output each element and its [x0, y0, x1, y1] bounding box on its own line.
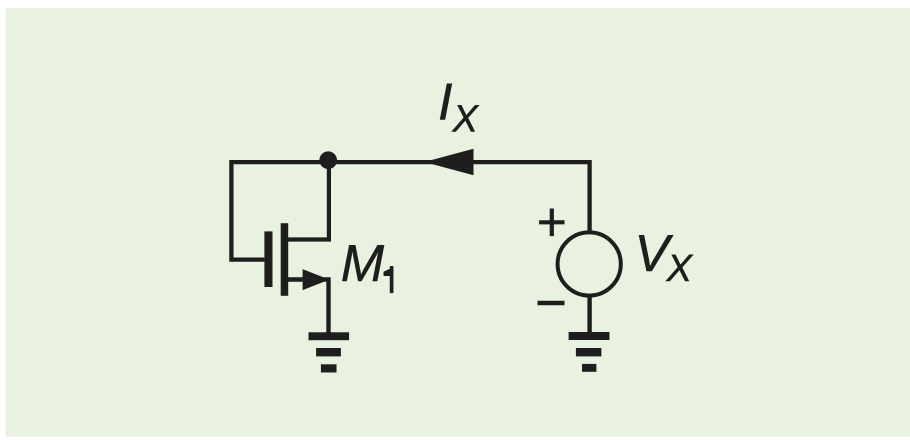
wire source lead: [285, 280, 329, 334]
ground under M1: [309, 332, 350, 372]
svg-text:X: X: [666, 248, 694, 290]
svg-text:X: X: [452, 99, 480, 141]
voltage source Vx circle: [558, 232, 621, 295]
transistor M1 channel bar: [281, 223, 289, 296]
svg-text:I: I: [438, 73, 452, 131]
subscript 1 of M1: [384, 266, 393, 293]
minus sign: [538, 301, 565, 306]
transistor M1 source arrow: [303, 269, 330, 290]
svg-text:M: M: [341, 235, 385, 293]
current arrow Ix: [424, 149, 473, 175]
transistor M1 gate bar: [264, 231, 272, 287]
node A junction dot: [319, 151, 337, 169]
plus sign: [539, 209, 564, 237]
wire drain lead: [285, 162, 329, 240]
wire gate-feedback + top rail + Vx drop: [231, 162, 589, 260]
wire Vx bottom lead: [587, 296, 591, 334]
ground under Vx: [569, 332, 610, 372]
